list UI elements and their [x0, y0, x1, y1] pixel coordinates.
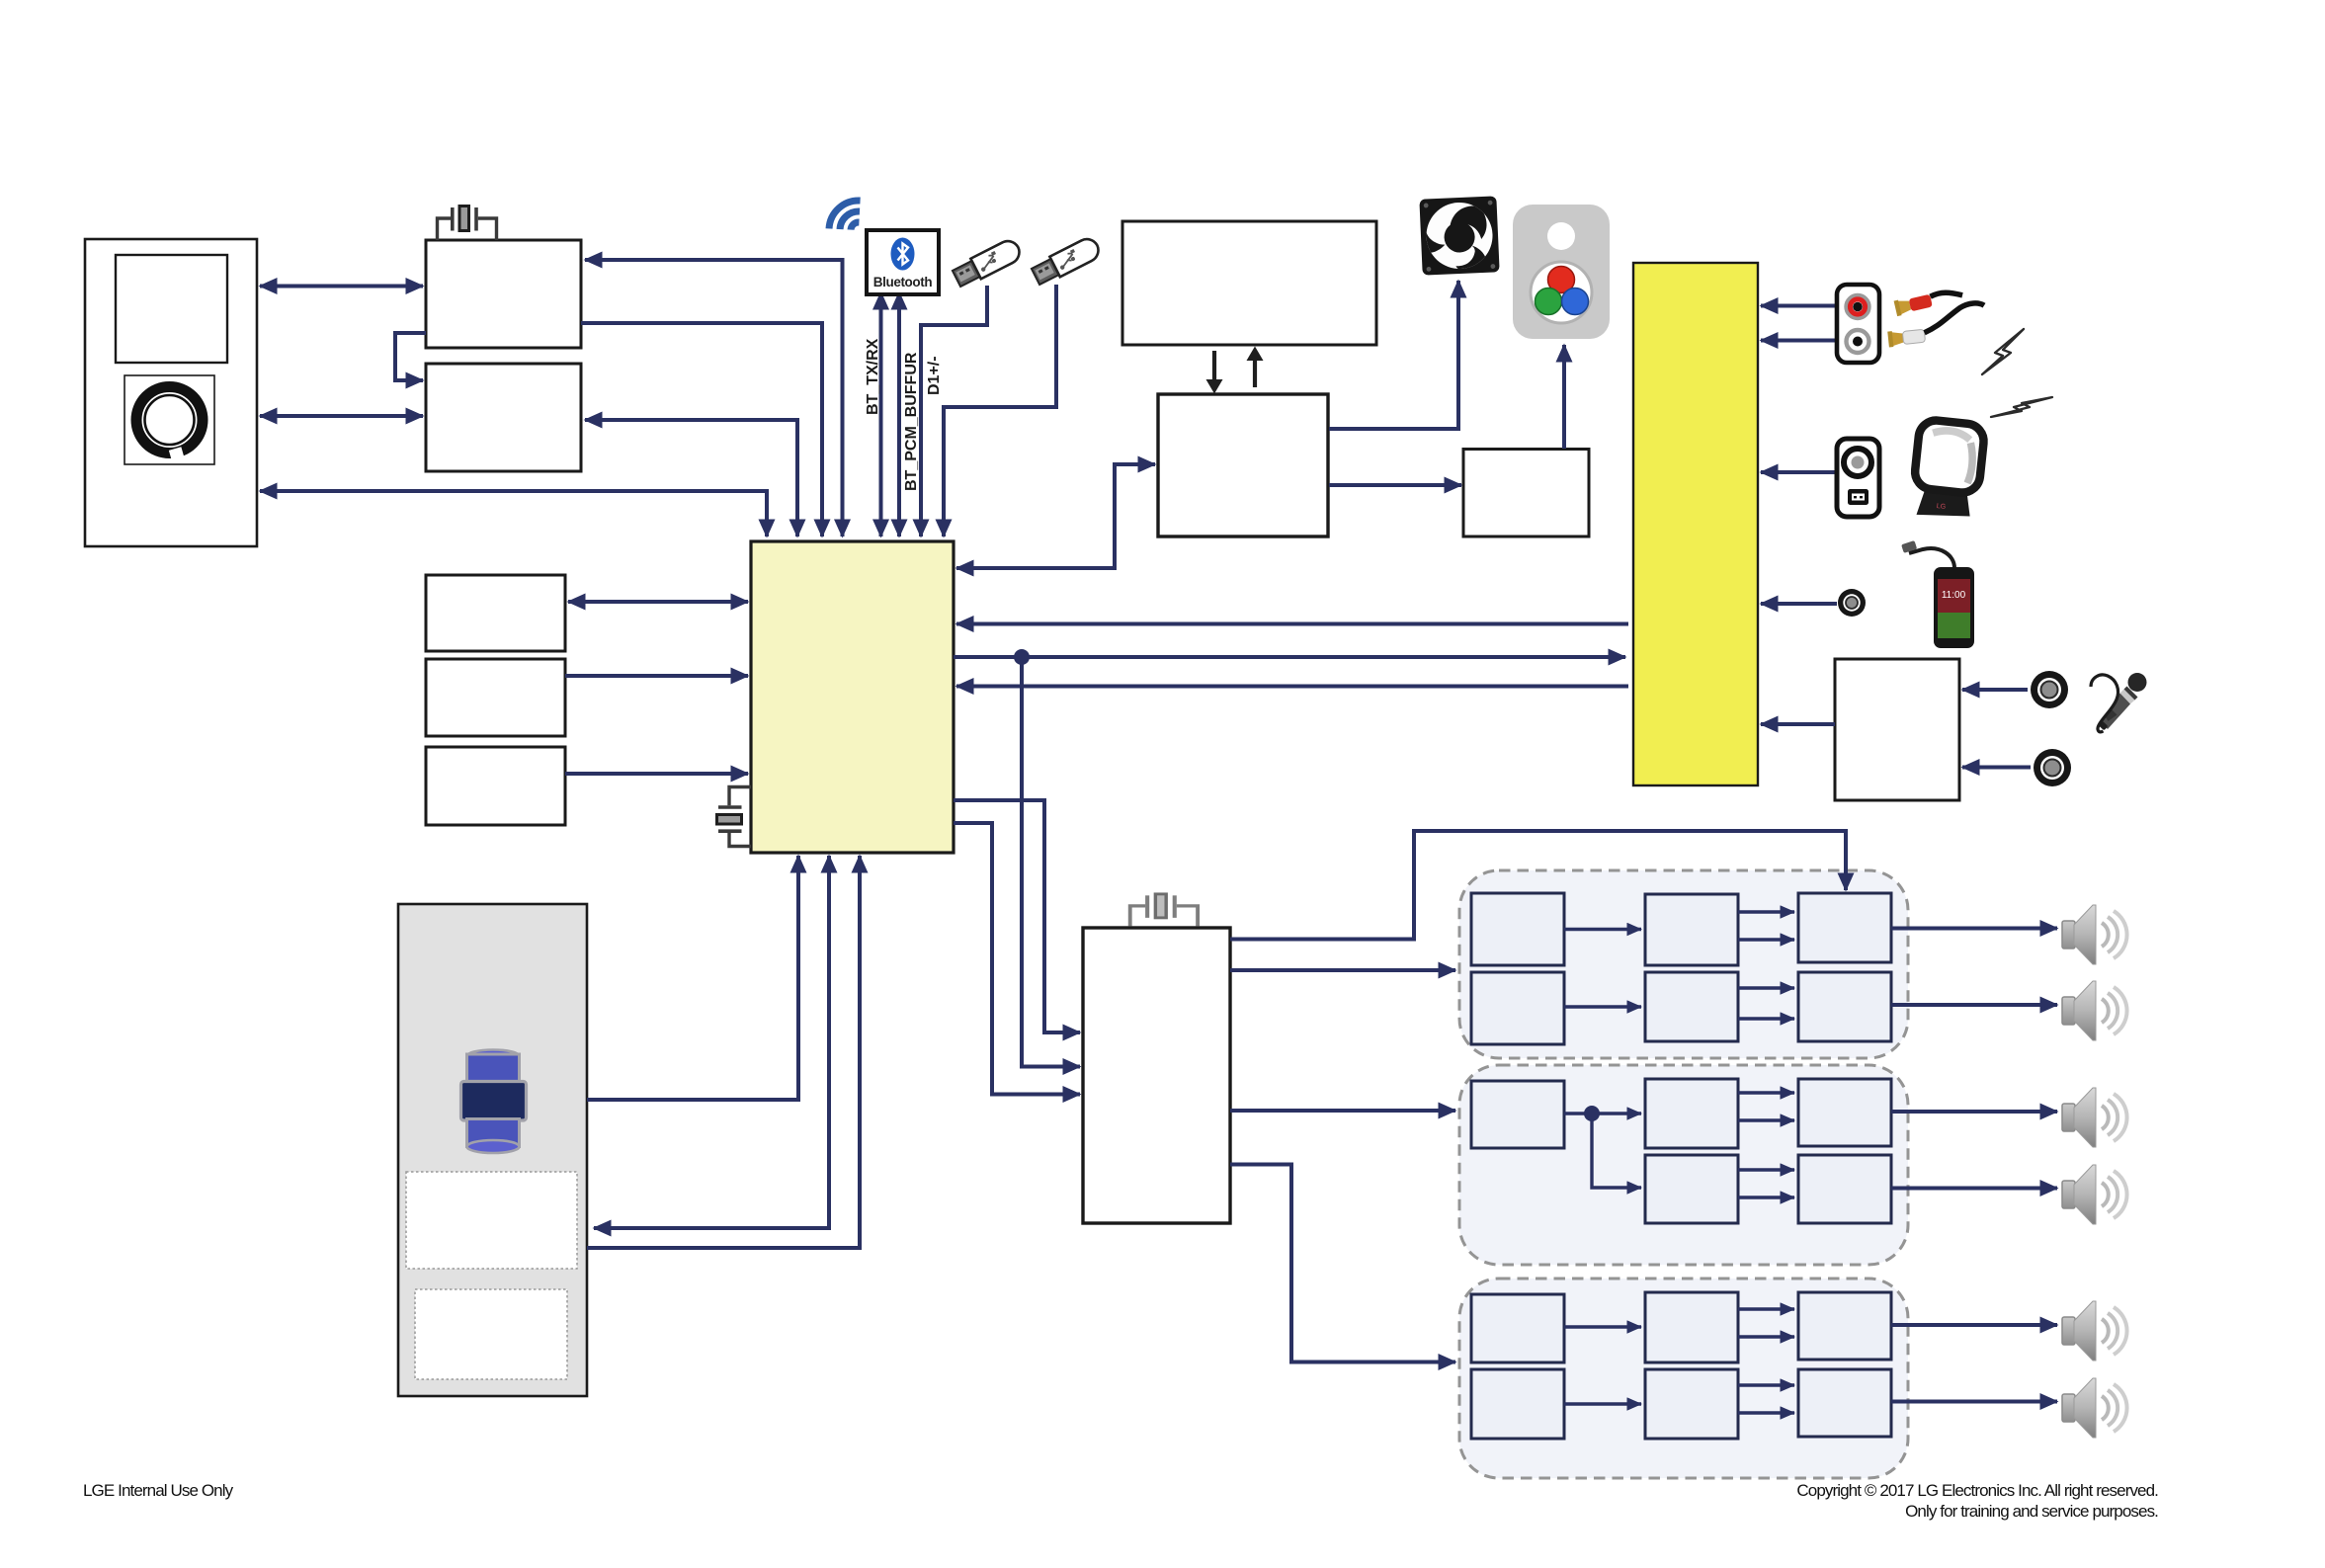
svg-text:11:00: 11:00	[1942, 590, 1966, 601]
svg-text:Only for training and service: Only for training and service purposes.	[1905, 1502, 2158, 1521]
svg-text:BT_TX/RX: BT_TX/RX	[865, 338, 881, 415]
svg-text:Bluetooth: Bluetooth	[873, 275, 933, 289]
svg-text:LG: LG	[1936, 503, 1946, 511]
svg-text:D1+/-: D1+/-	[926, 356, 943, 395]
svg-text:Copyright © 2017 LG Electronic: Copyright © 2017 LG Electronics Inc. All…	[1796, 1481, 2158, 1500]
svg-text:BT_PCM_BUFFUR: BT_PCM_BUFFUR	[903, 352, 920, 491]
svg-text:LGE Internal Use Only: LGE Internal Use Only	[83, 1481, 234, 1500]
